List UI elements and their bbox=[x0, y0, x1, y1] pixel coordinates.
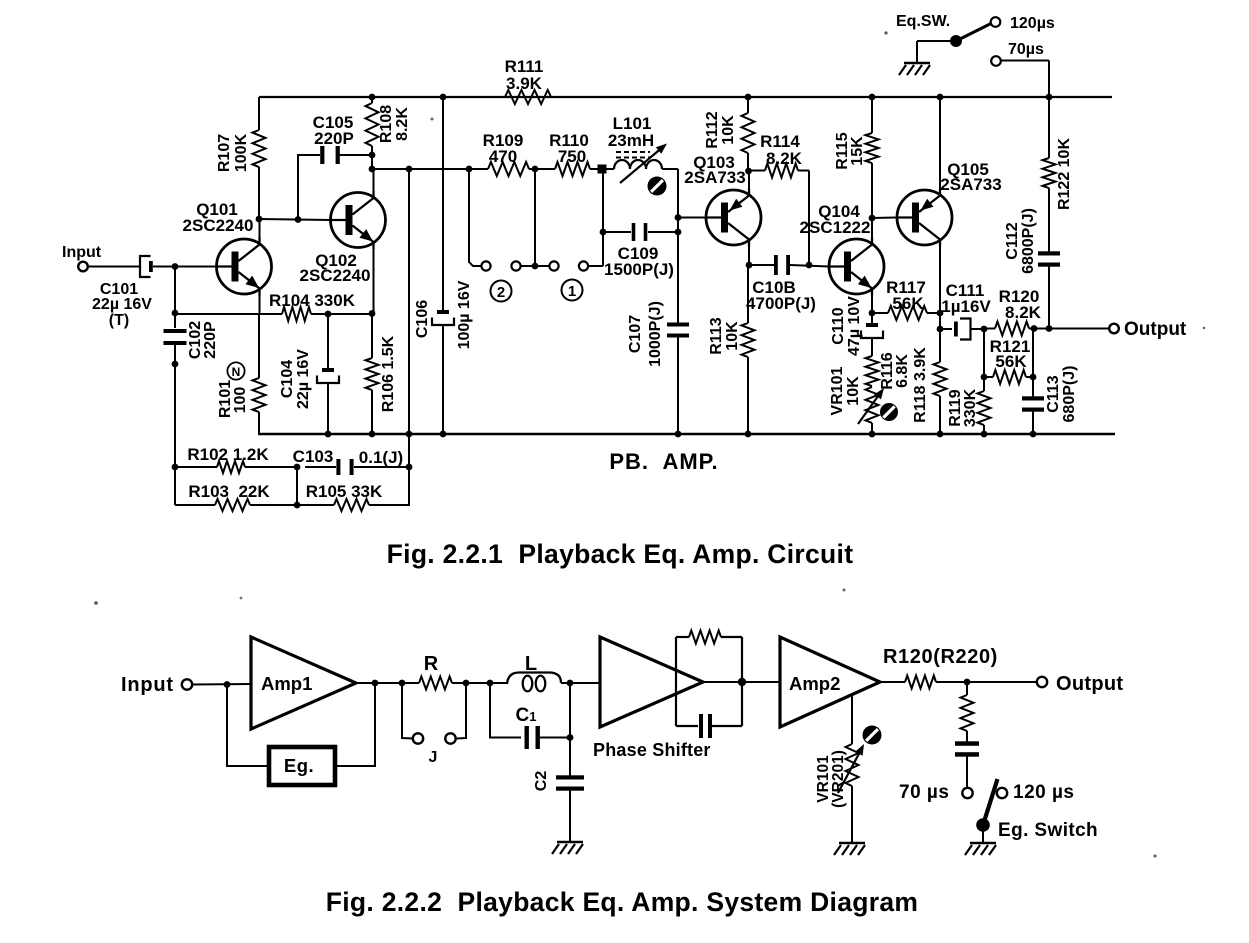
node R119 bottom rail junction bbox=[981, 431, 988, 438]
wire Amp1 output bbox=[356, 682, 419, 684]
wire feedback down-left bbox=[227, 685, 269, 767]
svg-text:3.9K: 3.9K bbox=[506, 74, 543, 93]
svg-text:(VR201): (VR201) bbox=[830, 750, 847, 808]
wire top supply rail bbox=[259, 96, 1112, 98]
resistor R107 100K bbox=[253, 130, 266, 167]
wire C111 right lead bbox=[971, 328, 984, 330]
svg-text:2SC2240: 2SC2240 bbox=[183, 216, 254, 235]
capacitor C1 bbox=[525, 726, 529, 749]
wire R103 row bbox=[175, 504, 215, 506]
resistor R109 470 bbox=[488, 162, 529, 176]
node R108/Q102 collector/signal junction bbox=[369, 166, 376, 173]
wire VR101 to ground bbox=[851, 786, 853, 843]
wire Q104 collector up bbox=[871, 218, 873, 238]
capacitor C106 100u 16V electrolytic bbox=[437, 310, 449, 314]
switch Eq.SW arm bbox=[956, 24, 991, 42]
wire Q102 emitter lead down bbox=[373, 249, 375, 314]
node C113 bottom rail junction bbox=[1030, 431, 1037, 438]
wire R112 column bbox=[747, 97, 749, 113]
wire R118 column bbox=[939, 313, 941, 362]
svg-text:Output: Output bbox=[1056, 673, 1123, 695]
svg-text:R112: R112 bbox=[704, 111, 721, 148]
feedback loop left side bbox=[675, 637, 677, 726]
svg-text:23mH: 23mH bbox=[608, 131, 654, 150]
wire L to Phase Shifter bbox=[561, 682, 600, 684]
node switch mid junction bbox=[532, 263, 539, 270]
wire Q105 base lead bbox=[872, 217, 897, 220]
node output divider junction bbox=[964, 679, 971, 686]
svg-text:2SC1222: 2SC1222 bbox=[800, 218, 871, 237]
variable resistor VR101(VR201) bbox=[846, 744, 859, 786]
svg-text:(T): (T) bbox=[109, 312, 129, 329]
svg-text:8.2K: 8.2K bbox=[394, 107, 411, 141]
wire R115 column bbox=[871, 97, 873, 133]
resistor R111 in top rail bbox=[505, 90, 551, 104]
wire Q101 collector lead bbox=[259, 219, 261, 238]
resistor R112 10K bbox=[742, 113, 755, 153]
node J branch left junction bbox=[399, 680, 406, 687]
contact switch 1 right bbox=[579, 261, 588, 270]
wire C105 right lead bbox=[338, 154, 372, 156]
op-amp Phase Shifter triangle bbox=[600, 637, 703, 727]
node C105 tap on base line bbox=[295, 216, 302, 223]
transistor Q102 2SC2240 bbox=[331, 193, 386, 248]
wire R104 row left segment bbox=[175, 313, 282, 315]
svg-text:680P(J): 680P(J) bbox=[1061, 366, 1078, 423]
node C109 right junction bbox=[675, 229, 682, 236]
svg-text:1500P(J): 1500P(J) bbox=[604, 260, 674, 279]
resistor R119 330K bbox=[978, 391, 991, 425]
resistor R121 56K bbox=[993, 370, 1026, 384]
node R112/R114/Q103 emitter junction bbox=[745, 168, 752, 175]
wire C2 column bbox=[569, 683, 571, 777]
contact 120us (system) bbox=[997, 788, 1007, 798]
resistor R113 10K bbox=[742, 323, 755, 357]
wire pole to ground bbox=[982, 825, 984, 843]
svg-text:1000P(J): 1000P(J) bbox=[647, 301, 664, 367]
svg-text:56K: 56K bbox=[892, 294, 924, 313]
capacitor C108 4700P(J) bbox=[774, 255, 778, 275]
terminal Output bbox=[1109, 324, 1119, 334]
capacitor C109 1500P(J) bbox=[632, 223, 636, 241]
resistor R122 10K bbox=[1043, 158, 1056, 188]
contact switch 2 left bbox=[481, 261, 490, 270]
node C102 top junction bbox=[172, 310, 179, 317]
contact 70us bbox=[991, 56, 1001, 66]
svg-text:PB. AMP.: PB. AMP. bbox=[609, 449, 718, 474]
svg-text:10K: 10K bbox=[845, 376, 862, 406]
svg-text:Phase Shifter: Phase Shifter bbox=[593, 740, 711, 760]
wire R121 leads bbox=[984, 376, 993, 378]
svg-text:220P: 220P bbox=[314, 129, 354, 148]
terminal Input bbox=[78, 262, 88, 272]
svg-text:22µ 16V: 22µ 16V bbox=[295, 349, 312, 409]
svg-text:56K: 56K bbox=[995, 352, 1027, 371]
resistor R115 15K bbox=[866, 133, 879, 163]
resistor R102 1.2K bbox=[217, 461, 245, 473]
wire C109 left column bbox=[602, 169, 604, 266]
svg-text:R103 22K: R103 22K bbox=[188, 482, 270, 501]
node R113 bottom rail junction bbox=[745, 431, 752, 438]
resistor R120 (system) bbox=[905, 676, 936, 689]
wire C112 bottom lead bbox=[1048, 264, 1050, 329]
wire Q103 base lead bbox=[678, 217, 706, 219]
node Q101 collector junction bbox=[256, 216, 263, 223]
svg-text:R108: R108 bbox=[378, 105, 395, 143]
wire output line bbox=[1049, 328, 1110, 330]
node R103/R105 junction bbox=[294, 502, 301, 509]
svg-text:10K: 10K bbox=[720, 115, 737, 145]
svg-text:R122 10K: R122 10K bbox=[1056, 138, 1073, 210]
svg-text:0.1(J): 0.1(J) bbox=[359, 448, 403, 467]
resistor R101 100 bbox=[253, 378, 266, 412]
wire R to L segment bbox=[452, 682, 508, 684]
node Amp1 output junction bbox=[372, 680, 379, 687]
wire C110 leads bbox=[871, 313, 873, 324]
svg-text:4700P(J): 4700P(J) bbox=[746, 294, 816, 313]
switch Eg pole dot bbox=[976, 818, 990, 832]
svg-text:R105 33K: R105 33K bbox=[306, 482, 383, 501]
node C111 left junction bbox=[937, 326, 944, 333]
node R108 top rail junction bbox=[369, 94, 376, 101]
resistor R117 56K bbox=[888, 306, 927, 320]
resistor R105 33K bbox=[334, 499, 369, 511]
node C1 branch junction bbox=[487, 680, 494, 687]
wire R121 right column bbox=[1032, 329, 1034, 399]
node R117/Q105 collector junction bbox=[937, 310, 944, 317]
feedback loop right side bbox=[741, 637, 743, 726]
svg-text:1µ16V: 1µ16V bbox=[941, 297, 991, 316]
resistor R (system) bbox=[419, 677, 452, 690]
svg-text:Eg. Switch: Eg. Switch bbox=[998, 820, 1098, 841]
inductor L101 23mH bbox=[614, 160, 662, 169]
node feedback rail crossing bbox=[406, 431, 413, 438]
capacitor C102 220P bbox=[164, 329, 187, 333]
capacitor C104 22u 16V electrolytic bbox=[322, 368, 334, 372]
svg-text:2SA733: 2SA733 bbox=[940, 175, 1001, 194]
svg-text:Input: Input bbox=[62, 244, 102, 261]
wire C104 leads bbox=[327, 314, 329, 369]
capacitor divider (system) bbox=[955, 741, 979, 746]
svg-text:C104: C104 bbox=[279, 360, 296, 398]
node R106 bottom rail junction bbox=[369, 431, 376, 438]
wire C1 branch bbox=[490, 683, 521, 738]
wire 70us to R122 column bbox=[1001, 60, 1050, 62]
node C104 bottom rail junction bbox=[325, 431, 332, 438]
svg-text:R104 330K: R104 330K bbox=[269, 291, 356, 310]
svg-text:8.2K: 8.2K bbox=[1005, 303, 1042, 322]
node C107 bottom rail junction bbox=[675, 431, 682, 438]
node C109 left tap bbox=[600, 229, 607, 236]
svg-text:C106: C106 bbox=[414, 300, 431, 338]
wire Q102 collector lead up bbox=[373, 169, 375, 191]
wire switch mid column bbox=[534, 169, 536, 266]
wire Amp2 output bbox=[880, 681, 905, 683]
ground Eg switch bbox=[970, 842, 996, 845]
wire capacitor to 70us contact bbox=[966, 754, 968, 788]
svg-text:J: J bbox=[429, 749, 438, 766]
wire R117 left lead bbox=[872, 312, 888, 314]
svg-text:Eg.: Eg. bbox=[284, 755, 314, 776]
svg-text:2SA733: 2SA733 bbox=[684, 168, 745, 187]
transistor Q105 2SA733 bbox=[897, 190, 952, 245]
svg-text:70 µs: 70 µs bbox=[899, 782, 949, 803]
wire Q105 collector down bbox=[939, 243, 941, 314]
node C112 bottom junction bbox=[1046, 325, 1053, 332]
resistor R108 8.2K bbox=[366, 103, 379, 146]
wire R101 top lead bbox=[258, 314, 260, 378]
wire right column of feedback box bbox=[408, 467, 410, 505]
node C104 tap bbox=[325, 311, 332, 318]
node feedback tap on signal line bbox=[406, 166, 413, 173]
wire between switch contacts 2-3 bbox=[521, 265, 550, 267]
svg-text:C1: C1 bbox=[516, 705, 537, 726]
svg-text:C112: C112 bbox=[1004, 222, 1021, 259]
capacitor C111 1u 16V electrolytic bbox=[954, 322, 958, 337]
contact 70us (system) bbox=[962, 788, 972, 798]
node C106 top rail junction bbox=[440, 94, 447, 101]
node LC junction bbox=[567, 680, 574, 687]
wire C106 column bbox=[442, 97, 444, 311]
contact switch 1 left bbox=[549, 261, 558, 270]
svg-text:100µ 16V: 100µ 16V bbox=[456, 280, 473, 349]
svg-text:C113: C113 bbox=[1045, 375, 1062, 412]
svg-text:VR101: VR101 bbox=[829, 366, 846, 415]
transistor Q101 2SC2240 bbox=[217, 239, 272, 294]
wire C101 to Q101 base bbox=[153, 266, 217, 268]
feedback loop bottom with capacitor bbox=[676, 725, 698, 727]
svg-text:10K: 10K bbox=[724, 321, 741, 351]
svg-text:70µs: 70µs bbox=[1008, 41, 1044, 58]
contact J right bbox=[445, 733, 455, 743]
capacitor C103 0.1(J) bbox=[336, 459, 340, 475]
feedback loop top with resistor bbox=[676, 636, 689, 638]
wire R121 branch down bbox=[983, 329, 985, 377]
svg-text:L: L bbox=[525, 653, 537, 675]
svg-text:Output: Output bbox=[1124, 319, 1187, 340]
resistor R116 6.8K bbox=[866, 356, 879, 386]
svg-text:2SC2240: 2SC2240 bbox=[300, 266, 371, 285]
svg-text:22µ 16V: 22µ 16V bbox=[92, 296, 152, 313]
node R right junction bbox=[463, 680, 470, 687]
svg-text:750: 750 bbox=[558, 147, 586, 166]
node C111/R120/R121 junction bbox=[981, 326, 988, 333]
ground C2 bbox=[557, 841, 583, 844]
capacitor C101 22u 16V electrolytic bbox=[140, 256, 151, 277]
wire C103 mid column bbox=[296, 467, 298, 505]
switch Eq.SW pole bbox=[950, 35, 962, 47]
node Q103 base tap bbox=[675, 214, 682, 221]
svg-text:R107: R107 bbox=[216, 134, 233, 172]
wire C1 right lead bbox=[540, 737, 570, 739]
node R112 top rail junction bbox=[745, 94, 752, 101]
node R121 right junction bbox=[1030, 374, 1037, 381]
svg-text:100K: 100K bbox=[233, 133, 250, 172]
node R114/C108/Q104 base junction bbox=[806, 262, 813, 269]
svg-text:C103: C103 bbox=[293, 447, 334, 466]
inductor L (system) bbox=[507, 673, 561, 685]
resistor R103 22K bbox=[215, 499, 250, 511]
wire Q101 emitter to R101/R104 node bbox=[259, 296, 261, 315]
resistor R110 750 bbox=[555, 162, 590, 176]
wire L101 right lead bbox=[662, 168, 678, 170]
switch J right drop bbox=[457, 683, 467, 739]
capacitor C2 bbox=[556, 775, 584, 779]
wire R108 column bbox=[371, 97, 373, 103]
wire R106 leads bbox=[371, 314, 373, 358]
wire R120 leads bbox=[984, 328, 995, 330]
transistor Q104 2SC1222 bbox=[829, 239, 884, 294]
resistor divider vertical (system) bbox=[966, 682, 968, 695]
svg-text:1: 1 bbox=[568, 283, 576, 300]
svg-text:6.8K: 6.8K bbox=[894, 354, 911, 388]
wire R120 to output bbox=[936, 681, 1037, 683]
terminal output (system) bbox=[1037, 677, 1047, 687]
wire R114 right column down bbox=[808, 171, 810, 266]
trimmer mark VR101 bbox=[880, 403, 898, 421]
svg-text:2: 2 bbox=[497, 284, 505, 301]
wire bottom ground rail bbox=[258, 433, 1115, 436]
ground VR101 bbox=[839, 842, 865, 845]
node R118 bottom rail junction bbox=[937, 431, 944, 438]
wire R104 to C104/R106 bbox=[311, 313, 372, 315]
label circled 1 bbox=[562, 280, 583, 301]
trimmer mark VR101 system bbox=[863, 726, 882, 745]
svg-text:100: 100 bbox=[232, 387, 249, 414]
wire R109-R110 bbox=[529, 168, 555, 170]
contact J left bbox=[413, 733, 423, 743]
node below C102 bbox=[172, 361, 179, 368]
wire switch branch 2 left drop bbox=[469, 169, 481, 266]
capacitor C105 220P bbox=[320, 146, 324, 164]
wire input to Amp1 bbox=[192, 683, 251, 686]
svg-text:R113: R113 bbox=[708, 317, 725, 354]
wire Q103 collector down to C108 node bbox=[748, 243, 750, 266]
transistor Q103 2SA733 bbox=[706, 190, 761, 245]
node C103 left junction bbox=[294, 464, 301, 471]
svg-text:8.2K: 8.2K bbox=[766, 149, 803, 168]
node Q103 collector junction bbox=[746, 262, 753, 269]
op-amp Amp2 triangle bbox=[780, 637, 880, 727]
wire Amp2 to VR101 bbox=[851, 696, 853, 744]
wire Q103 emitter up to R112 node bbox=[748, 171, 750, 193]
wire C105 left lead bbox=[298, 155, 320, 220]
svg-text:C110: C110 bbox=[830, 307, 847, 344]
resistor R118 3.9K bbox=[934, 362, 947, 396]
wire R113 leads bbox=[747, 265, 749, 323]
wire contact 1 right lead bbox=[588, 265, 603, 267]
node phase shifter output junction bbox=[738, 678, 746, 686]
scan specks bbox=[884, 31, 887, 34]
wiper arrow VR101 bbox=[858, 392, 881, 424]
svg-text:Fig. 2.2.1 Playback Eq. Amp.: Fig. 2.2.1 Playback Eq. Amp. Circuit bbox=[387, 539, 854, 569]
wire C108 left lead bbox=[749, 264, 774, 266]
node input coupling junction bbox=[172, 263, 179, 270]
wire C2 to ground bbox=[569, 788, 571, 843]
feedback box wires R102 row bbox=[175, 466, 217, 468]
svg-text:120 µs: 120 µs bbox=[1013, 782, 1075, 803]
svg-text:470: 470 bbox=[489, 147, 517, 166]
svg-text:Eq.SW.: Eq.SW. bbox=[896, 13, 950, 30]
node C1/C2 junction bbox=[567, 734, 574, 741]
svg-text:15K: 15K bbox=[849, 136, 866, 166]
svg-text:120µs: 120µs bbox=[1010, 15, 1055, 32]
node pad junction before L101 bbox=[598, 165, 607, 174]
wire Q104 emitter down bbox=[871, 296, 873, 314]
wire Phase Shifter to Amp2 bbox=[703, 681, 780, 683]
node VR101 bottom rail junction bbox=[869, 431, 876, 438]
wire feedback column down to R102 box bbox=[408, 169, 410, 467]
wire C111 left lead bbox=[940, 328, 952, 330]
switch J left drop bbox=[402, 683, 413, 739]
node R120 right junction bbox=[1031, 325, 1038, 332]
wire Q101 collector to Q102 base bbox=[259, 219, 331, 220]
capacitor C113 680P(J) bbox=[1022, 396, 1044, 400]
wire R119 leads bbox=[983, 377, 985, 391]
wire C102 down left branch bbox=[174, 345, 176, 505]
svg-text:R: R bbox=[424, 653, 439, 675]
svg-text:Amp1: Amp1 bbox=[261, 673, 312, 694]
node switch branch 1 tap bbox=[532, 166, 539, 173]
svg-text:N: N bbox=[232, 365, 241, 379]
wire Q105 emitter up to rail bbox=[939, 97, 941, 193]
node R115 top rail junction bbox=[869, 94, 876, 101]
svg-text:Fig. 2.2.2 Playback Eq. Amp.: Fig. 2.2.2 Playback Eq. Amp. System Diag… bbox=[326, 887, 919, 917]
node switch branch 2 tap bbox=[466, 166, 473, 173]
node Q102 emitter node bbox=[369, 310, 376, 317]
wire main vertical x678 signal to rail bbox=[677, 169, 679, 325]
wire left column R107/Q101 branch bbox=[258, 97, 260, 130]
wire Eq.SW pole to ground bbox=[917, 40, 950, 42]
node input feedback tap bbox=[224, 681, 231, 688]
wire R110 to L101 bbox=[590, 168, 614, 170]
capacitor C107 1000P(J) bbox=[667, 323, 689, 327]
wire C109 right lead bbox=[648, 231, 678, 233]
svg-text:330K: 330K bbox=[962, 388, 979, 427]
svg-text:R102 1.2K: R102 1.2K bbox=[187, 445, 269, 464]
resistor R120 8.2K bbox=[995, 322, 1029, 336]
svg-text:R106 1.5K: R106 1.5K bbox=[380, 335, 397, 412]
switch Eg arm (system) bbox=[983, 779, 998, 825]
svg-text:C107: C107 bbox=[627, 315, 644, 353]
svg-text:C2: C2 bbox=[533, 771, 550, 792]
variable resistor VR101 10K bbox=[866, 387, 879, 423]
block Eg. equalizer box bbox=[269, 747, 335, 785]
resistor R104 330K bbox=[282, 307, 311, 321]
node Q105 emitter rail junction bbox=[937, 94, 944, 101]
capacitor C112 6800P(J) bbox=[1038, 251, 1060, 255]
node R102 left end bbox=[172, 464, 179, 471]
svg-text:Amp2: Amp2 bbox=[789, 673, 840, 694]
wire C109 left lead bbox=[603, 231, 631, 233]
trimmer mark on L101 bbox=[648, 177, 667, 196]
label circled 2 bbox=[491, 281, 512, 302]
wire R117 right lead bbox=[927, 312, 940, 314]
contact switch 2 right bbox=[511, 261, 520, 270]
resistor R106 1.5K bbox=[366, 358, 379, 390]
capacitor C110 47u 10V electrolytic bbox=[866, 323, 878, 327]
svg-text:R120(R220): R120(R220) bbox=[883, 646, 998, 668]
wire feedback right side bbox=[335, 683, 375, 766]
svg-text:6800P(J): 6800P(J) bbox=[1020, 208, 1037, 274]
wire input node down to C102 bbox=[174, 267, 176, 329]
node R121 left junction bbox=[981, 374, 988, 381]
wire R122 to C112 bbox=[1048, 188, 1050, 253]
resistor R114 8.2K bbox=[765, 164, 798, 178]
node R102 row right end bbox=[406, 464, 413, 471]
wire C113 bottom lead bbox=[1032, 409, 1034, 435]
node Q104 emitter junction bbox=[869, 310, 876, 317]
